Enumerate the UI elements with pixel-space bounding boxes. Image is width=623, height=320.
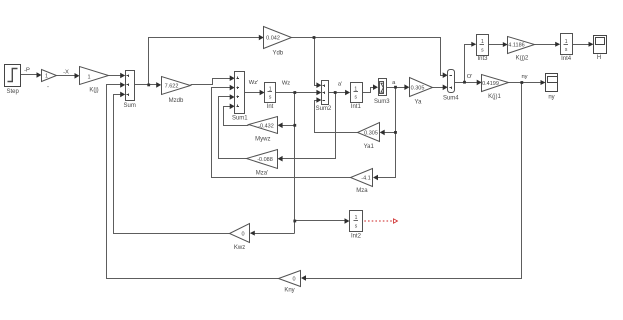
svg-text:4.1186: 4.1186 [508, 43, 524, 49]
svg-text:Int2: Int2 [351, 234, 362, 240]
svg-text:0.305: 0.305 [411, 86, 425, 92]
svg-text:H: H [597, 55, 601, 61]
svg-text:0.4199: 0.4199 [482, 81, 499, 87]
svg-text:Kwz: Kwz [234, 245, 245, 251]
svg-text:-0.088: -0.088 [257, 157, 273, 163]
svg-text:Sum2: Sum2 [316, 106, 332, 112]
svg-text:Mywz: Mywz [255, 137, 270, 143]
svg-text:Int: Int [267, 104, 274, 110]
svg-text:1: 1 [87, 74, 90, 80]
svg-text:Int4: Int4 [561, 56, 572, 62]
svg-text:1: 1 [45, 74, 48, 80]
svg-text:0.305: 0.305 [364, 131, 378, 137]
svg-text:Ya1: Ya1 [364, 144, 375, 150]
svg-text:-: - [47, 85, 49, 91]
svg-text:Ya: Ya [415, 100, 423, 106]
svg-text:-P: -P [24, 68, 30, 74]
svg-text:7.622: 7.622 [165, 84, 179, 90]
svg-text:Wz': Wz' [249, 80, 258, 86]
svg-text:Step: Step [7, 89, 20, 95]
svg-text:Int1: Int1 [351, 104, 362, 110]
svg-text:K(j): K(j) [89, 88, 98, 94]
svg-text:ny: ny [548, 95, 554, 101]
svg-text:Sum3: Sum3 [374, 99, 390, 105]
svg-text:0.042: 0.042 [266, 36, 280, 42]
svg-text:ny: ny [521, 74, 527, 80]
svg-text:K(j)2: K(j)2 [516, 56, 529, 62]
svg-text:Int3: Int3 [477, 56, 488, 62]
svg-text:-X: -X [63, 70, 69, 76]
svg-text:Mzdb: Mzdb [169, 98, 184, 104]
svg-text:K(j)1: K(j)1 [488, 94, 501, 100]
svg-text:0: 0 [292, 276, 295, 282]
svg-text:Mza': Mza' [256, 171, 268, 177]
svg-text:O': O' [467, 74, 473, 80]
svg-text:0: 0 [241, 231, 244, 237]
svg-text:Sum4: Sum4 [443, 96, 459, 102]
svg-text:Ydb: Ydb [272, 51, 283, 57]
svg-text:a': a' [338, 82, 342, 88]
svg-text:Mza: Mza [356, 188, 368, 194]
svg-text:-0.432: -0.432 [258, 123, 274, 129]
svg-text:-4.1: -4.1 [361, 176, 370, 182]
svg-text:Wz: Wz [282, 81, 290, 87]
svg-text:Sum1: Sum1 [232, 116, 248, 122]
svg-text:Kny: Kny [284, 288, 294, 294]
svg-text:Sum: Sum [124, 103, 136, 109]
